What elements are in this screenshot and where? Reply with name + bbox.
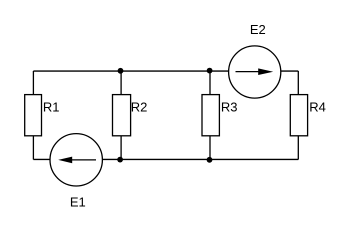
svg-text:R2: R2: [131, 100, 148, 115]
svg-text:R4: R4: [309, 100, 326, 115]
svg-text:E2: E2: [250, 22, 266, 37]
svg-text:E1: E1: [70, 195, 86, 210]
svg-text:R1: R1: [43, 100, 60, 115]
svg-text:R3: R3: [221, 100, 238, 115]
